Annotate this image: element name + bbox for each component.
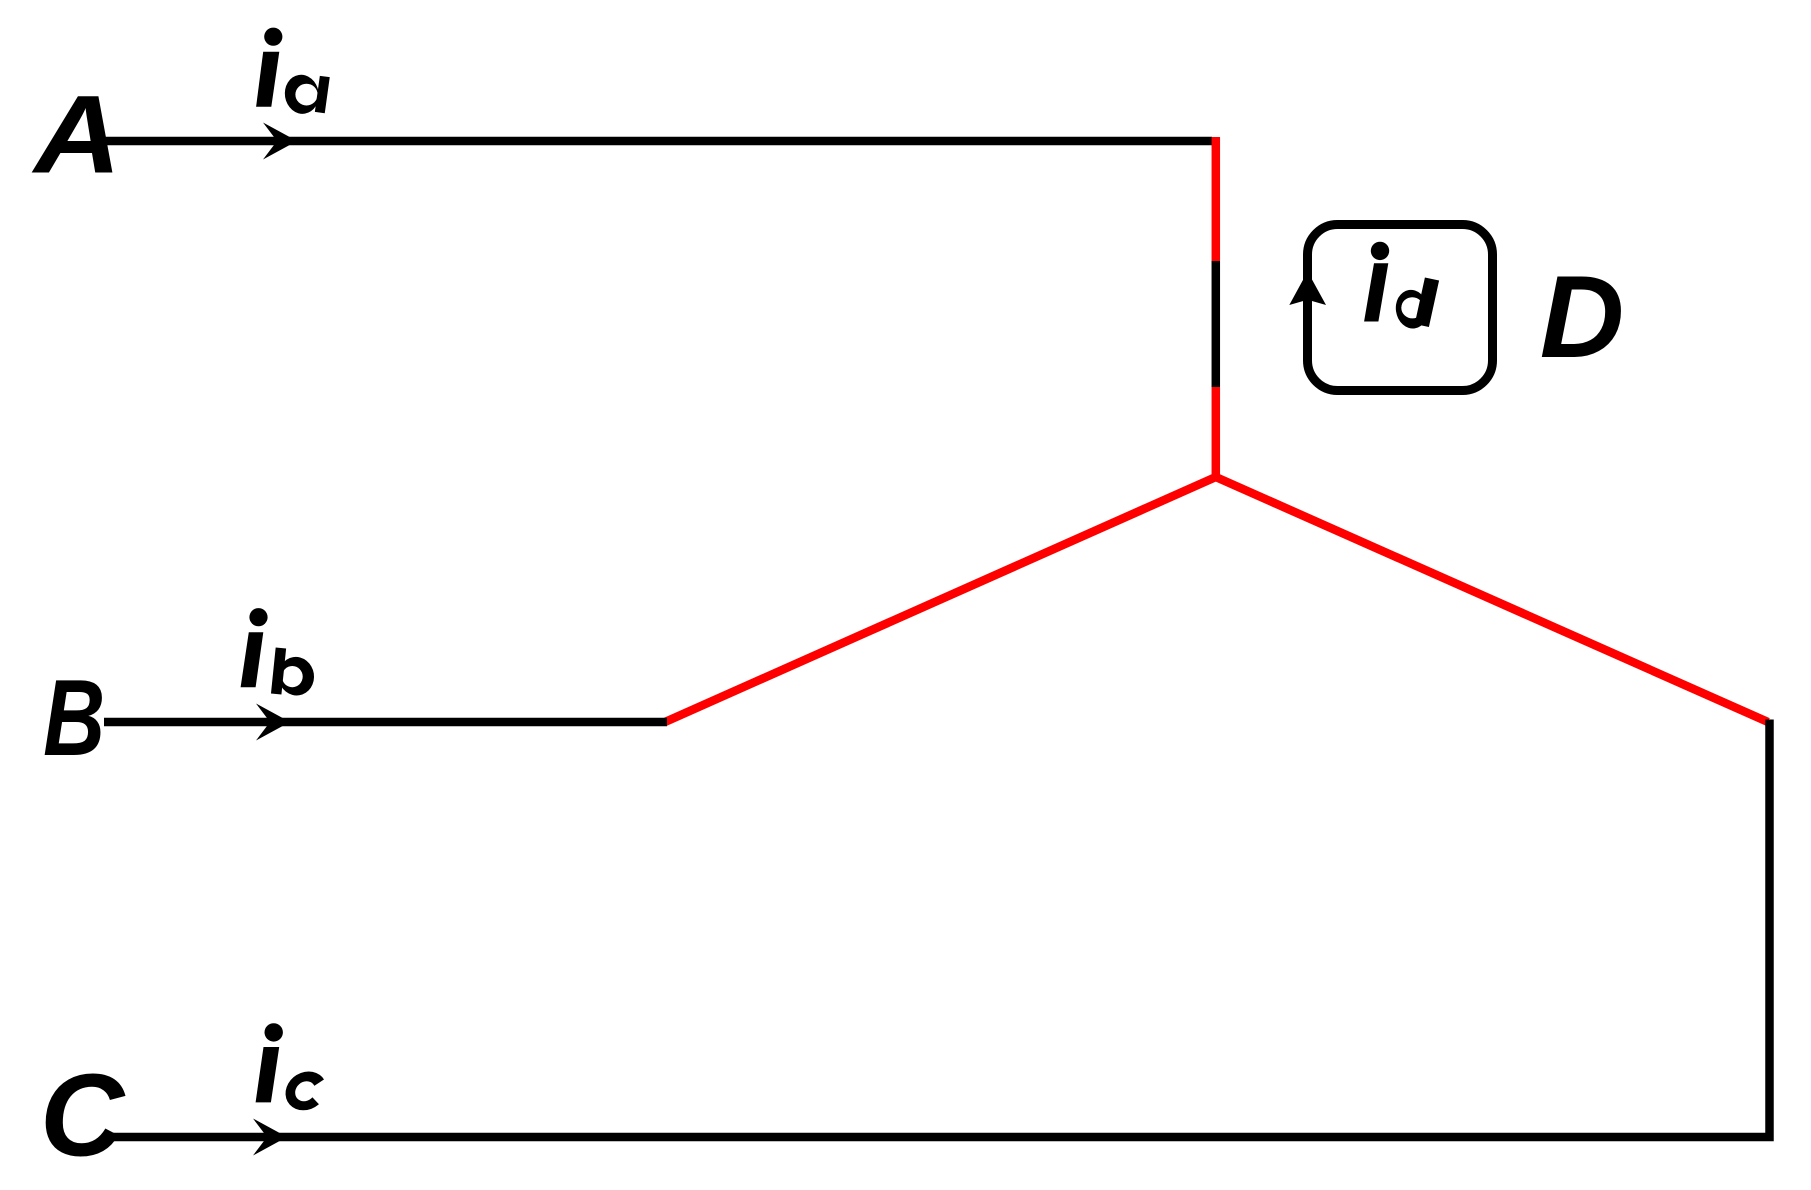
svg-text:B: B [43,656,105,778]
svg-text:C: C [40,1050,126,1180]
svg-text:A: A [31,73,121,196]
loop D: rounded-square circulation symbol [1308,225,1493,391]
label i_b : subscript b (stem) [276,648,281,694]
svg-text:D: D [1540,251,1625,382]
label i_b : dot of i [249,608,267,626]
label i_d : subscript d (ring) [1393,288,1430,331]
label i_b : stem of i [241,632,264,687]
label i_a : subscript a (stem) [320,77,325,113]
loop D: arrowhead pointing up on left side [1289,272,1326,306]
arrowhead on phase B (current i_b direction) [256,704,290,741]
label i_c : subscript c (open ring) [281,1065,355,1123]
wire: red segment from A line corner down (top part) [1212,137,1221,261]
label i_c : dot of i [265,1023,283,1041]
arrowhead on phase C (current i_c direction) [253,1119,287,1156]
label i_b : subscript b (ring) [276,654,317,698]
label i_d : stem of i [1364,263,1388,321]
wire: black middle segment of vertical branch [1212,261,1221,387]
wire: phase A horizontal line [103,137,1212,146]
label i_a : subscript a (ring) [282,72,322,116]
arrowhead on phase A (current i_a direction) [263,123,297,160]
label i_c : stem of i [256,1047,280,1102]
label i_a : stem of i [256,52,279,107]
label i_d : subscript d (stem) [1422,279,1432,326]
wire: red lower vertical segment into junction [1212,387,1221,477]
label i_a : dot of i [264,28,282,46]
wire: phase B horizontal line [104,718,667,727]
wire: phase C horizontal line and right vertical return [103,720,1770,1138]
label i_d : dot of i [1371,242,1389,260]
wire: red Y junction diagonals to B and to right corner [665,477,1768,722]
